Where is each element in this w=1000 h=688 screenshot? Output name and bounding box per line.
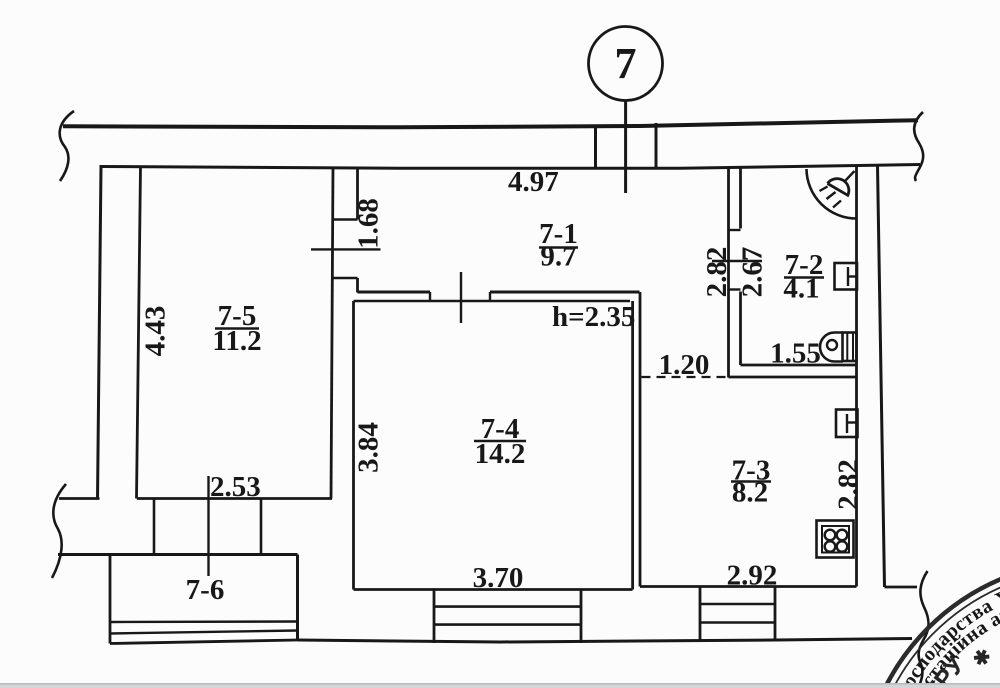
svg-text:2.67: 2.67 — [737, 247, 769, 298]
svg-text:2.53: 2.53 — [210, 471, 261, 503]
svg-text:4.43: 4.43 — [140, 306, 172, 357]
svg-text:8.2: 8.2 — [732, 477, 768, 509]
svg-text:4.97: 4.97 — [508, 166, 559, 198]
svg-text:7: 7 — [615, 39, 637, 88]
svg-text:3.70: 3.70 — [473, 562, 524, 594]
svg-text:1.68: 1.68 — [353, 198, 385, 249]
svg-text:1.55: 1.55 — [770, 338, 821, 370]
svg-text:2.92: 2.92 — [727, 560, 778, 592]
svg-text:2.82: 2.82 — [701, 247, 733, 298]
svg-text:11.2: 11.2 — [212, 325, 261, 357]
svg-text:h=2.35: h=2.35 — [552, 301, 635, 333]
svg-text:7-6: 7-6 — [186, 574, 225, 606]
svg-text:2.82: 2.82 — [833, 459, 865, 510]
svg-text:4.1: 4.1 — [783, 273, 819, 305]
svg-text:14.2: 14.2 — [475, 438, 526, 470]
svg-text:9.7: 9.7 — [540, 241, 576, 273]
svg-text:1.20: 1.20 — [659, 349, 710, 381]
svg-text:3.84: 3.84 — [353, 422, 385, 473]
